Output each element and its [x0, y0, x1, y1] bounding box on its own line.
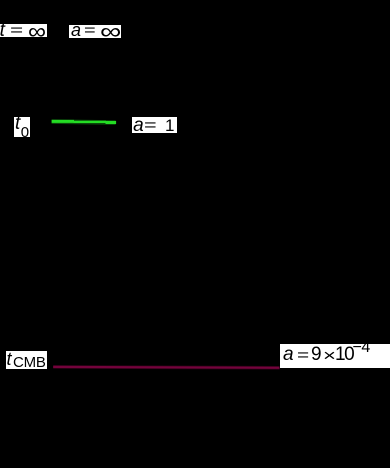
node label: a = 9e-4 [280, 344, 390, 368]
node label: a = infinity [69, 25, 121, 38]
node label: a = 1 [132, 117, 178, 134]
node label: t_CMB [6, 351, 47, 370]
node label: t = infinity [0, 24, 47, 37]
node label: t0 [14, 117, 30, 137]
